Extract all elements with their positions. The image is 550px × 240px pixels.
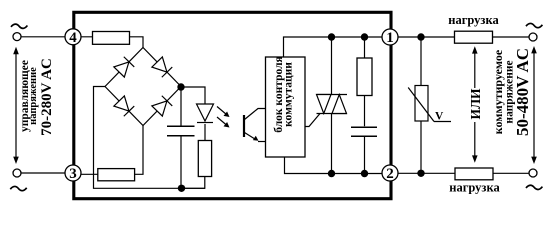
junction snubber top [361,33,368,40]
svg-text:3: 3 [69,166,77,182]
tilde bottom-right [526,185,542,189]
commutation control block U1 [266,57,306,157]
resistor R1 [93,32,130,45]
light arrow 2 [217,117,230,128]
tilde top-left [11,24,27,28]
wire LED to R3 [204,124,206,141]
wire R2 to C2 [364,96,366,127]
wire U1 bottom to output bus [285,157,385,174]
svg-text:нагрузка: нагрузка [448,13,499,27]
junction triac bottom [328,170,335,177]
terminal 4 [65,29,81,45]
svg-text:2: 2 [386,166,394,182]
LED of optocoupler [197,104,214,123]
resistor R2 [357,58,372,96]
junction on minus bus [178,185,185,192]
terminal AC source top-left [13,33,21,41]
wire plus node down to C1 [180,87,182,126]
light arrow 1 [217,107,230,118]
bridge rectifier edges [105,48,181,126]
wire [21,172,66,174]
wire terminal2 to load [398,172,529,174]
svg-text:нагрузка: нагрузка [449,181,500,195]
terminal AC out top-right [529,33,537,41]
wire bridge left corner to minus bus [94,87,206,189]
resistor R4 [98,169,135,181]
wire terminal4 to R1 [73,36,93,38]
wire R1 to bridge top [129,37,143,48]
triac VS1 [305,37,347,174]
control-voltage span arrow [13,47,19,164]
tilde top-right [526,23,542,27]
wire C1 to minus bus [180,136,182,188]
terminal AC source bottom-left [13,169,21,177]
wire varistor bottom [420,121,422,173]
svg-text:70-280V AC: 70-280V AC [39,58,55,136]
svg-text:50-480V AC: 50-480V AC [513,48,532,136]
load resistor top [455,31,493,43]
bridge diode D3 (bottom-left) [114,96,134,116]
wire bridge bottom corner to R4 [134,126,143,175]
capacitor C1 [167,125,195,127]
terminal 2 [382,165,398,181]
terminal 1 [382,29,398,45]
bridge diode D4 (bottom-right) [152,96,172,116]
load resistor bottom [455,168,493,180]
SSR case outline [74,12,391,198]
junction varistor bottom [417,170,424,177]
bridge diode D2 (top-right) [152,57,172,77]
svg-text:4: 4 [69,30,77,46]
terminal 3 [65,165,81,181]
wire [21,36,66,38]
bridge diode D1 (top-left) [114,57,134,77]
wire plus node to LED [181,87,205,104]
junction varistor top [417,33,424,40]
wire terminal3 to R4 [73,173,99,175]
phototransistor Q1 [244,109,266,142]
varistor RU1 [408,86,451,122]
wire R3 to minus bus [181,177,205,189]
terminal AC out bottom-right [529,169,537,177]
svg-text:V: V [435,111,444,123]
wire varistor top [420,37,422,86]
tilde bottom-left [10,186,26,190]
junction snubber bottom [361,170,368,177]
junction triac top [328,33,335,40]
capacitor C2 [351,126,377,128]
svg-text:1: 1 [386,30,394,46]
svg-text:коммутации: коммутации [283,62,295,127]
wire snubber top [364,37,366,58]
junction bridge plus node [177,83,184,90]
wire terminal1 to load [398,36,529,38]
svg-text:напряжение: напряжение [28,67,39,125]
OR span arrow [472,46,478,163]
wire U1 top to output bus [284,37,385,57]
resistor R3 [198,141,211,177]
svg-text:ИЛИ: ИЛИ [468,88,483,120]
switched-voltage span arrow [531,46,537,164]
wire C2 to bus [364,137,366,174]
